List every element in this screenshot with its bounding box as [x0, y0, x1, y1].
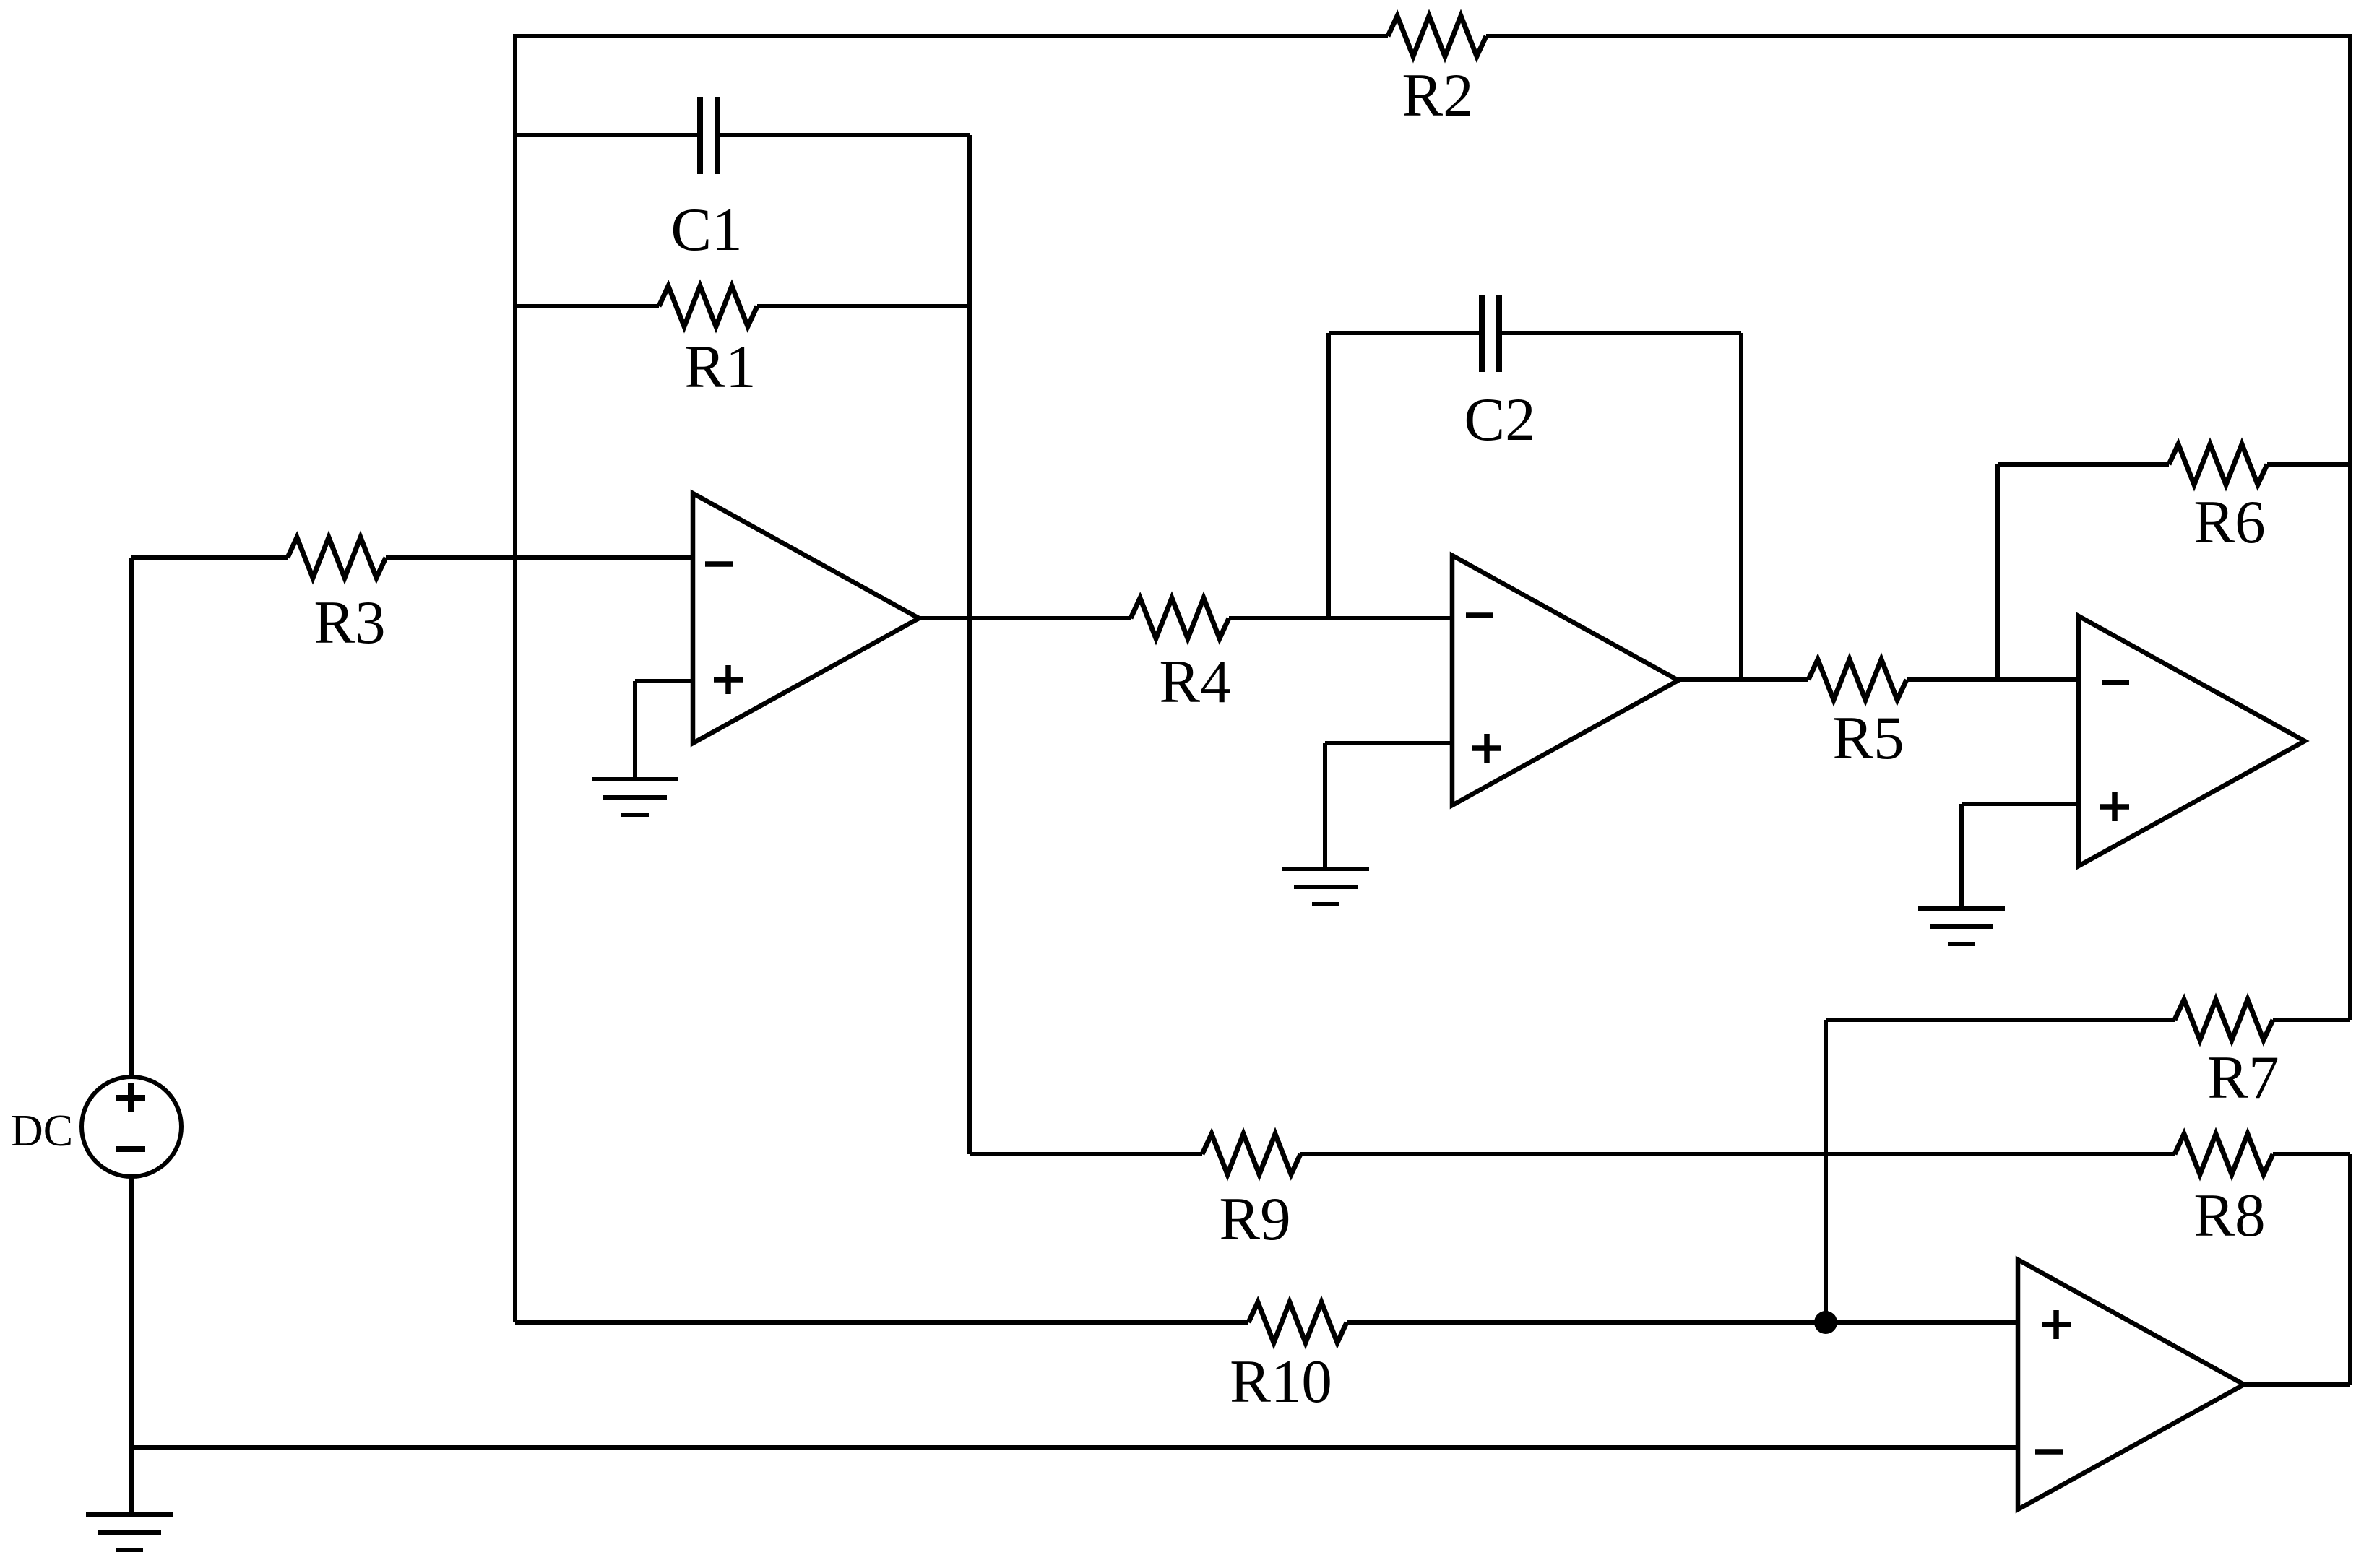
wire R7 left vertical to node A [1824, 1020, 1828, 1322]
wire R9/R8 branch [970, 1152, 1202, 1156]
svg-text:R7: R7 [2207, 1044, 2279, 1112]
svg-text:R1: R1 [684, 333, 756, 401]
wire ground rail to U4 inverting [131, 1445, 2018, 1450]
wire left vertical U1 inverting node [513, 34, 517, 1322]
op-amp U4 non-inverting pin label [2042, 1322, 2071, 1327]
wire U1 output to U2 inverting (R4 net) [919, 616, 1131, 620]
op-amp U2 inverting pin label [1466, 612, 1493, 618]
wire R6 branch [1998, 462, 2169, 467]
ground at U2 non-inverting [1282, 867, 1369, 871]
resistor R10 [1248, 1302, 1347, 1343]
resistor R6 [2169, 444, 2267, 485]
resistor R7 [2175, 1000, 2273, 1040]
svg-text:R6: R6 [2193, 488, 2265, 556]
wire C2 right vertical to U2 output [1739, 333, 1743, 680]
svg-text:R5: R5 [1832, 704, 1904, 772]
op-amp U1 inverting pin label [705, 561, 733, 567]
wire U1 non-inverting input [635, 679, 693, 683]
op-amp U1 [693, 493, 919, 743]
wire R1 branch [515, 304, 659, 308]
svg-text:R2: R2 [1402, 61, 1473, 129]
wire R10 branch to U4 non-inverting [515, 1320, 1248, 1325]
svg-text:R8: R8 [2193, 1182, 2265, 1249]
ground at U1 non-inverting [592, 777, 678, 781]
wire C1 top branch [515, 133, 697, 137]
resistor R5 [1808, 659, 1907, 700]
svg-text:R10: R10 [1230, 1348, 1332, 1416]
wire R6 left vertical [1995, 464, 2000, 680]
node A junction dot [1814, 1311, 1837, 1334]
op-amp U3 [2079, 616, 2305, 866]
resistor R8 [2175, 1134, 2273, 1174]
svg-text:R9: R9 [1219, 1185, 1290, 1253]
op-amp U3 inverting pin label [2102, 680, 2129, 685]
ground at U3 non-inverting [1918, 906, 2005, 911]
op-amp U1 non-inverting pin label [714, 677, 743, 683]
op-amp U3 non-inverting pin label [2100, 804, 2129, 810]
resistor R1 [659, 286, 757, 326]
wire U1 non-inverting to ground [633, 681, 637, 779]
wire U3 non-inverting to ground [1959, 804, 1964, 909]
wire R7 branch [1826, 1018, 2175, 1022]
capacitor C2 [1479, 295, 1485, 372]
wire vertical C1/R1 right to U1 output and R9 [967, 135, 972, 1154]
wire U2 output to U3 inverting (R5 net) [1678, 677, 1808, 682]
capacitor C1 [697, 97, 703, 174]
resistor R3 [288, 537, 386, 578]
resistor R4 [1131, 598, 1229, 638]
svg-text:C1: C1 [670, 196, 742, 264]
wire right vertical U3 output net [2348, 34, 2352, 1020]
svg-text:DC: DC [11, 1106, 73, 1156]
wire C2 left vertical [1326, 333, 1331, 618]
wire R3 input to U1 inverting [131, 555, 288, 560]
wire U4 output [2245, 1382, 2350, 1387]
op-amp U2 [1452, 555, 1678, 805]
op-amp U4 [2018, 1260, 2244, 1509]
op-amp U4 inverting pin label [2035, 1449, 2063, 1455]
dc source V1 [82, 1077, 181, 1177]
wire U2 non-inverting input [1325, 741, 1452, 745]
ground at DC source [86, 1512, 173, 1517]
resistor R9 [1202, 1134, 1300, 1174]
svg-text:C2: C2 [1464, 386, 1535, 454]
wire U3 non-inverting input [1962, 802, 2079, 806]
wire top feedback (R2 net) [515, 34, 1388, 38]
wire U2 non-inverting to ground [1323, 743, 1327, 869]
resistor R2 [1388, 16, 1486, 56]
op-amp U2 non-inverting pin label [1472, 745, 1501, 751]
wire DC source top lead [129, 558, 134, 1079]
svg-text:R3: R3 [314, 589, 385, 657]
wire right vertical U4 output to R8 [2348, 1154, 2352, 1385]
wire DC source bottom lead to ground [129, 1174, 134, 1515]
svg-text:R4: R4 [1159, 648, 1230, 716]
wire C2 top branch [1329, 331, 1479, 335]
